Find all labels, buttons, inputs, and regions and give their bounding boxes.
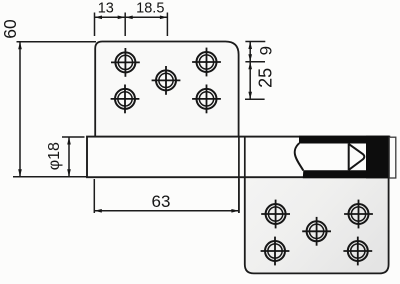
wire: bottom plate left edge crossing barrel	[244, 137, 246, 178]
hole A3 top plate middle	[152, 66, 181, 95]
svg-text:63: 63	[152, 192, 171, 211]
dimension 13/18.5 extension lines	[95, 13, 168, 37]
dimension line 13/18.5	[95, 16, 168, 18]
hinge pin tip	[349, 144, 365, 171]
dimension phi18 (left of barrel)	[62, 137, 85, 177]
hole B2 bottom plate left column row2	[261, 237, 290, 266]
barrel section: top wall (black)	[299, 136, 389, 144]
pin end strip (white tab)	[389, 137, 396, 178]
hole B3 bottom plate middle	[302, 217, 331, 246]
arrows for 13/18.5	[95, 16, 168, 20]
bottom hinge leaf plate	[245, 137, 389, 273]
svg-text:60: 60	[0, 19, 20, 39]
hole B4 bottom plate right column row1	[344, 200, 373, 229]
dimension 9/25 (right)	[245, 42, 265, 100]
hole B1 bottom plate left column row1	[261, 200, 290, 229]
hole A2 top plate left column row2	[111, 85, 140, 114]
hinge barrel (side bar)	[87, 137, 389, 178]
svg-text:18.5: 18.5	[136, 0, 164, 16]
wire: top plate right edge crossing barrel	[238, 137, 240, 213]
hole A4 top plate right column row1	[192, 48, 221, 77]
barrel section: break S-curve	[295, 143, 304, 170]
hole A5 top plate right column row2	[192, 85, 221, 114]
svg-text:9: 9	[256, 46, 275, 55]
svg-text:13: 13	[98, 0, 114, 16]
hole A1 top plate left column row1	[111, 48, 140, 77]
svg-text:φ18: φ18	[46, 142, 63, 170]
svg-text:25: 25	[255, 68, 275, 88]
barrel section: bottom wall (black)	[303, 170, 389, 178]
top hinge leaf plate	[95, 42, 238, 141]
dimension 63 (bottom)	[94, 179, 239, 213]
dimension 60 (left)	[13, 42, 96, 177]
barrel section: right end block (black)	[366, 136, 389, 179]
hole B5 bottom plate right column row2	[343, 237, 372, 266]
